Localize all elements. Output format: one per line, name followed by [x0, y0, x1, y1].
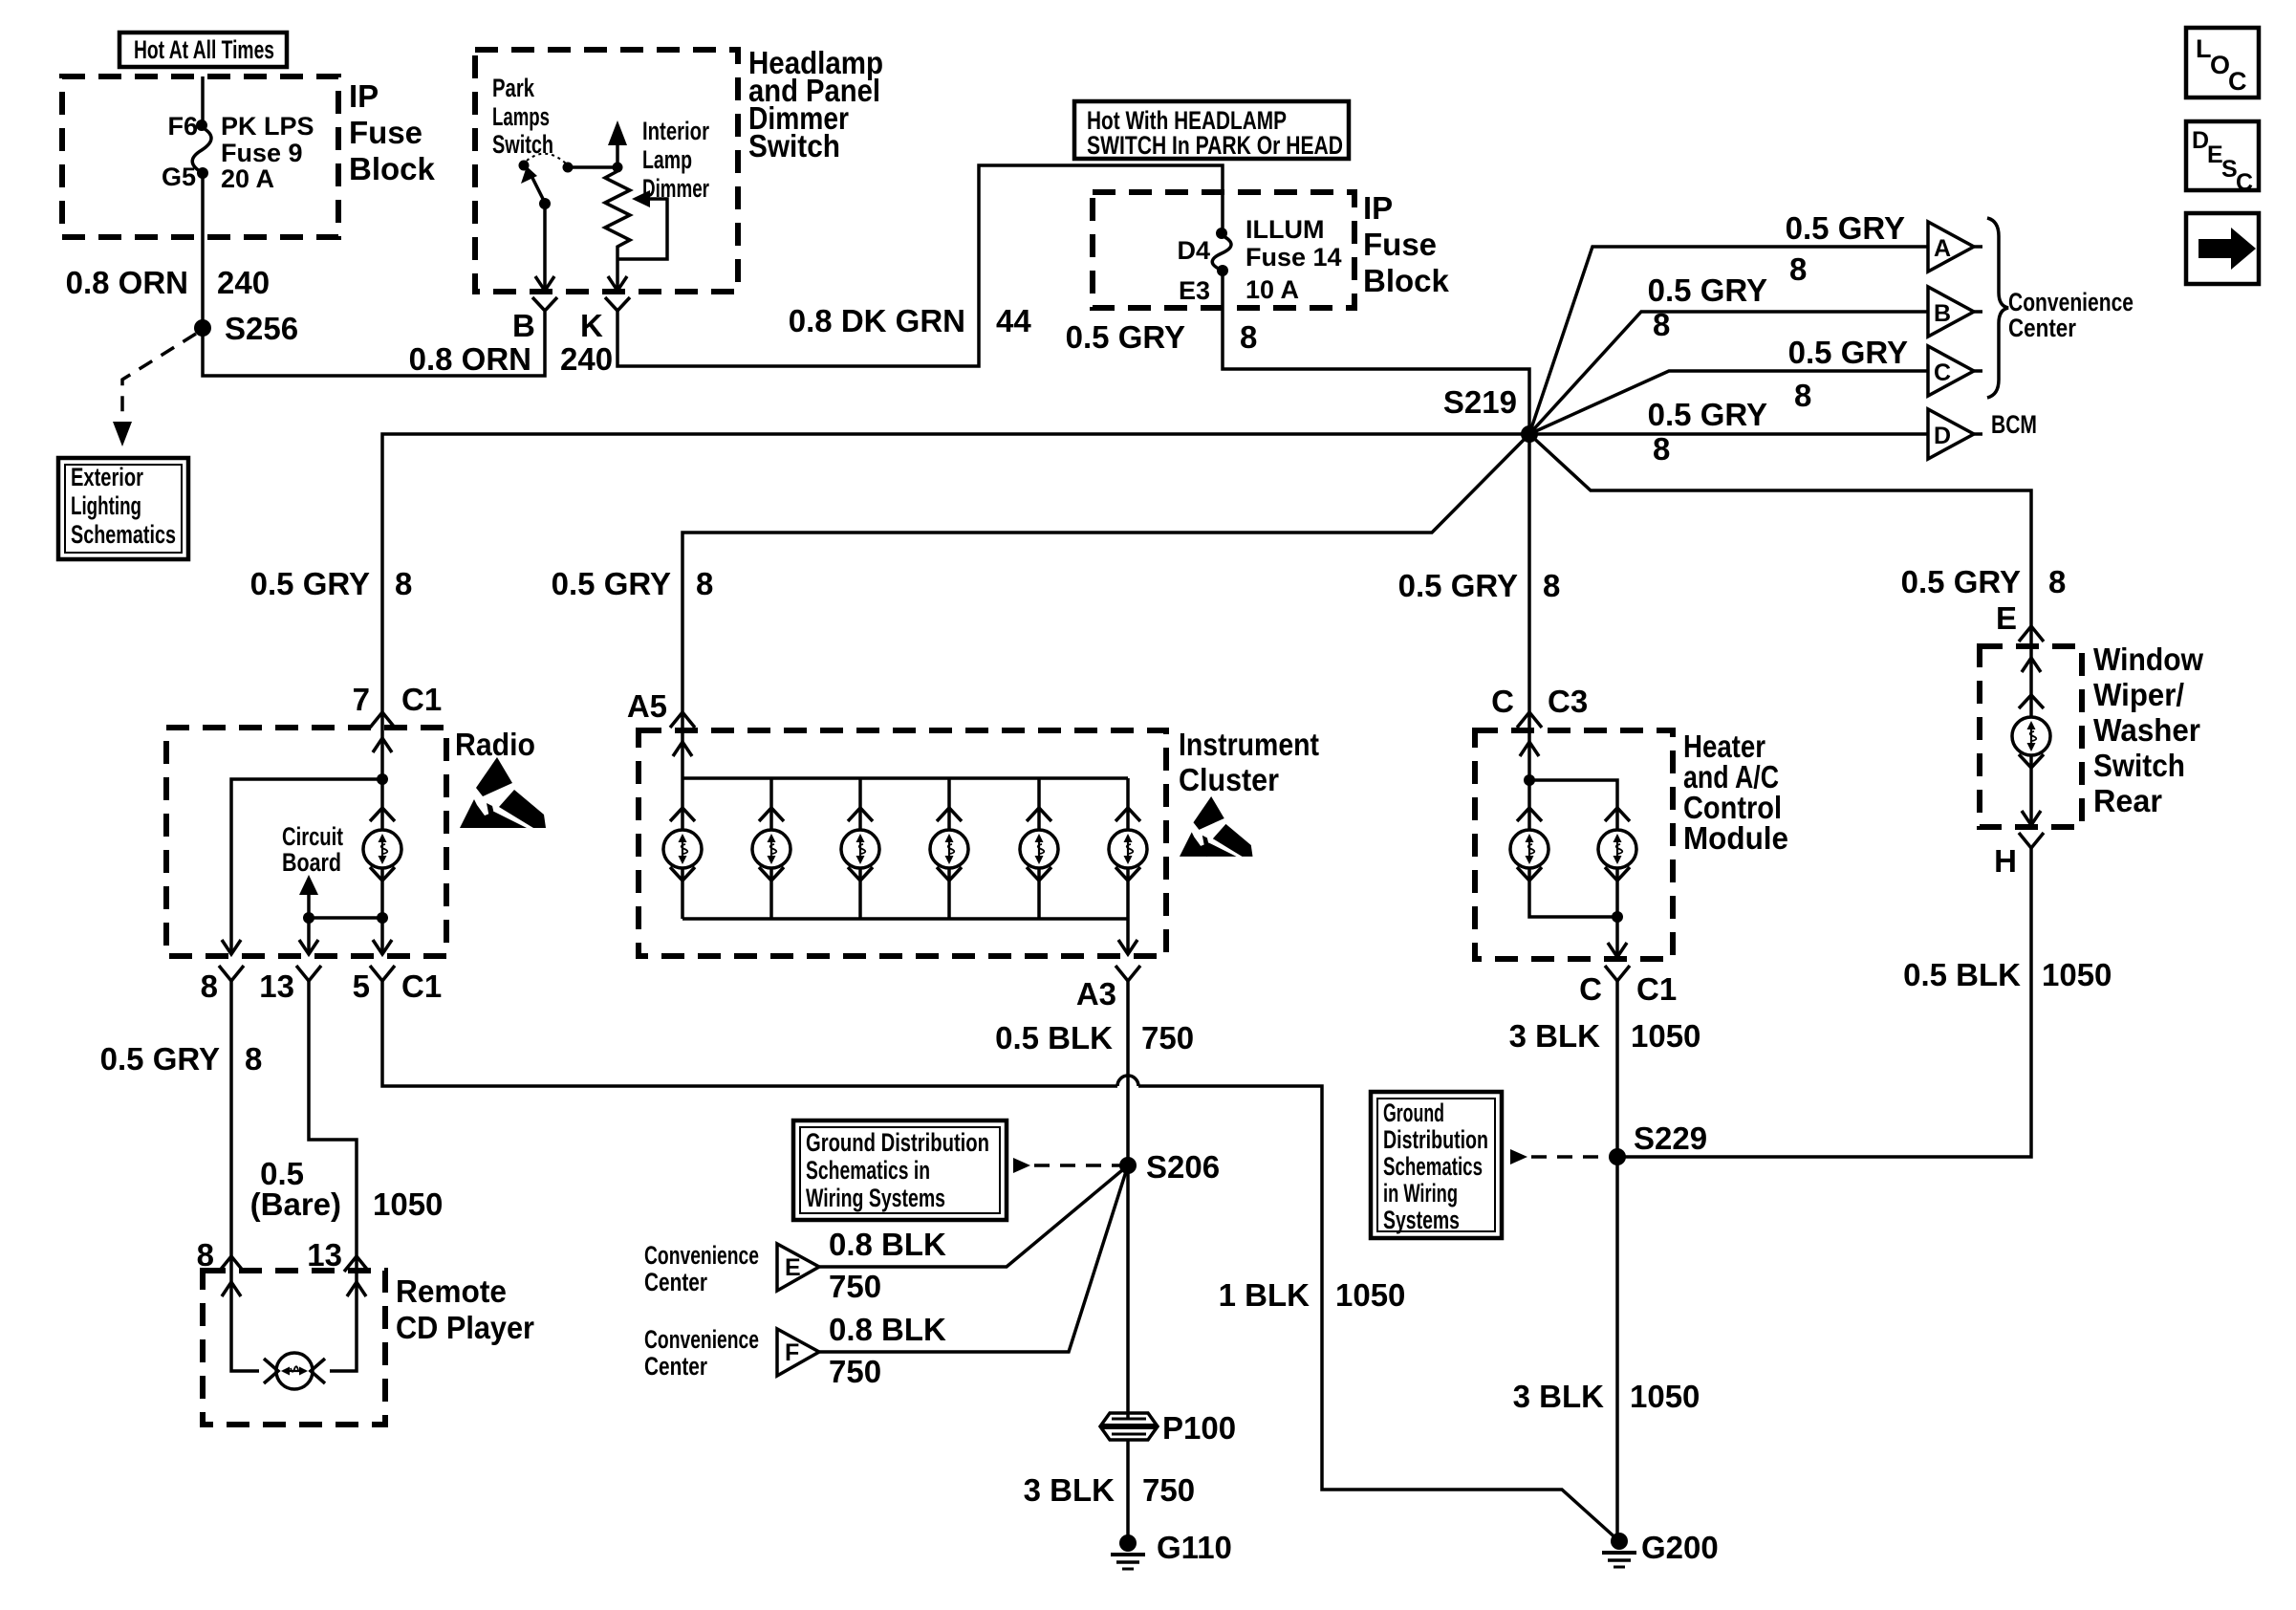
svg-text:5: 5 — [353, 968, 370, 1004]
connector H — [2019, 833, 2044, 848]
svg-text:D4: D4 — [1177, 236, 1210, 265]
svg-text:S206: S206 — [1146, 1149, 1220, 1185]
svg-text:240: 240 — [560, 341, 613, 377]
svg-text:Block: Block — [349, 151, 436, 186]
svg-text:Switch: Switch — [492, 130, 553, 159]
svg-text:0.5 GRY: 0.5 GRY — [1648, 397, 1767, 432]
circuit board ground arrow — [299, 875, 382, 954]
svg-text:240: 240 — [217, 265, 270, 300]
svg-text:Fuse: Fuse — [1363, 227, 1437, 262]
callout box: Hot At All Times — [119, 33, 287, 67]
svg-text:0.5 GRY: 0.5 GRY — [1066, 319, 1185, 355]
callout box: Ground Distribution Schematics in Wiring Systems (right) — [1371, 1092, 1502, 1238]
wiper lamp — [2029, 626, 2033, 695]
wire: E to S206 — [819, 1165, 1128, 1267]
svg-text:Window: Window — [2093, 642, 2203, 677]
connector triangle D — [1928, 409, 1982, 459]
cluster lamp 2 — [769, 778, 773, 808]
svg-text:SWITCH In PARK Or HEAD: SWITCH In PARK Or HEAD — [1087, 131, 1343, 160]
svg-text:C: C — [2228, 67, 2247, 96]
svg-text:Cluster: Cluster — [1179, 762, 1279, 797]
splice S219 — [1521, 425, 1538, 443]
svg-text:Fuse 9: Fuse 9 — [221, 139, 303, 167]
svg-text:(Bare): (Bare) — [250, 1186, 341, 1222]
svg-text:750: 750 — [1142, 1472, 1195, 1508]
svg-text:0.5 GRY: 0.5 GRY — [250, 566, 370, 601]
cluster lamp 5 — [1037, 778, 1041, 808]
connector A5 — [670, 712, 695, 728]
Heater and A/C Control Module dashed box — [1475, 730, 1673, 959]
svg-text:Switch: Switch — [748, 128, 840, 163]
svg-text:S256: S256 — [225, 311, 298, 346]
svg-text:Convenience: Convenience — [2008, 288, 2134, 316]
svg-text:ILLUM: ILLUM — [1245, 215, 1324, 244]
connector K — [605, 297, 630, 311]
svg-text:Block: Block — [1363, 263, 1450, 298]
IP Fuse Block (left) dashed box — [62, 76, 338, 237]
fuse PK LPS Fuse 9 — [162, 112, 314, 193]
svg-text:20 A: 20 A — [221, 164, 274, 193]
connector triangle C — [1928, 346, 1982, 396]
wire: heater drop from S219 — [1527, 434, 1531, 712]
svg-text:Washer: Washer — [2093, 712, 2200, 748]
splice S229 — [1609, 1148, 1626, 1165]
svg-text:Wiper/: Wiper/ — [2093, 677, 2184, 712]
wire: S219 to C (convenience center) — [1529, 371, 1928, 434]
svg-text:C3: C3 — [1548, 684, 1588, 719]
svg-text:C: C — [1934, 359, 1951, 386]
wire: feed into fuse F6 — [201, 76, 205, 121]
svg-text:Exterior: Exterior — [71, 463, 143, 491]
svg-text:E: E — [1996, 600, 2017, 636]
splice S206 — [1119, 1157, 1137, 1174]
svg-text:H: H — [1994, 843, 2017, 879]
svg-text:Switch: Switch — [2093, 748, 2185, 783]
svg-text:CD Player: CD Player — [396, 1310, 534, 1345]
connector triangle F (convenience center) — [777, 1329, 819, 1376]
wire: S219 to wiper switch drop — [1529, 434, 2031, 626]
svg-text:P100: P100 — [1162, 1410, 1236, 1446]
svg-text:Convenience: Convenience — [644, 1241, 759, 1270]
IP Fuse Block (right) dashed box — [1093, 192, 1354, 308]
wire: S256 down and right to headlamp switch B — [203, 312, 545, 376]
svg-text:0.8 ORN: 0.8 ORN — [66, 265, 188, 300]
wire: S219 to instrument cluster A5 — [682, 434, 1529, 712]
svg-text:8: 8 — [245, 1041, 262, 1077]
wire: S219 to B (convenience center) — [1529, 312, 1928, 434]
svg-text:Dimmer: Dimmer — [642, 174, 709, 203]
wire: radio 5/C1 ground run with hop over S206 wire — [382, 981, 1117, 1086]
svg-text:K: K — [580, 308, 603, 343]
svg-text:IP: IP — [1363, 190, 1393, 226]
svg-text:0.5 GRY: 0.5 GRY — [552, 566, 671, 601]
connector triangle A — [1928, 222, 1982, 272]
connector triangle B — [1928, 287, 1982, 337]
svg-text:Ground: Ground — [1383, 1099, 1444, 1127]
svg-text:8: 8 — [395, 566, 412, 601]
svg-text:0.5 GRY: 0.5 GRY — [100, 1041, 220, 1077]
connector B — [532, 297, 557, 311]
svg-text:Hot At All Times: Hot At All Times — [134, 35, 274, 64]
svg-text:0.8 BLK: 0.8 BLK — [829, 1227, 946, 1262]
svg-text:PK LPS: PK LPS — [221, 112, 314, 141]
svg-text:44: 44 — [996, 303, 1031, 338]
svg-text:C: C — [1491, 684, 1514, 719]
svg-text:Lamp: Lamp — [642, 145, 692, 174]
heater lamp 2 — [1598, 808, 1636, 881]
svg-text:B: B — [512, 308, 535, 343]
wire: S219 to D (BCM), shared horizontal — [1529, 432, 1928, 436]
svg-text:E: E — [785, 1254, 801, 1281]
LOC box — [2186, 28, 2259, 98]
svg-text:in Wiring: in Wiring — [1383, 1179, 1458, 1207]
svg-text:B: B — [1934, 300, 1951, 327]
wire: S219 left to radio drop — [382, 434, 1529, 712]
Window Wiper/Washer Switch Rear dashed box — [1980, 646, 2082, 827]
svg-text:C1: C1 — [401, 682, 442, 717]
svg-text:8: 8 — [201, 968, 218, 1004]
svg-text:D: D — [1934, 423, 1951, 449]
radio illumination lamp — [363, 808, 401, 881]
wire: fuse output to S219 — [1223, 271, 1529, 434]
callout box: Hot With HEADLAMP SWITCH In PARK Or HEAD — [1074, 101, 1349, 160]
cluster lamp 6 — [1126, 778, 1130, 808]
callout box: Exterior Lighting Schematics — [58, 458, 188, 559]
svg-text:Center: Center — [644, 1352, 707, 1381]
svg-text:8: 8 — [1240, 319, 1257, 355]
wire: F to S206 — [819, 1165, 1128, 1352]
wire: P100 to G110 — [1126, 1440, 1130, 1543]
connector E — [2019, 626, 2044, 642]
svg-text:7: 7 — [353, 682, 370, 717]
dashed reference arrow to S229 — [1510, 1149, 1527, 1164]
ESD symbol (cluster) — [1180, 796, 1253, 857]
svg-text:O: O — [2210, 51, 2230, 79]
svg-text:0.5 GRY: 0.5 GRY — [1901, 564, 2021, 599]
svg-text:1050: 1050 — [373, 1186, 443, 1222]
svg-text:Distribution: Distribution — [1383, 1125, 1488, 1154]
svg-text:8: 8 — [1653, 307, 1670, 342]
ground G110 — [1119, 1534, 1137, 1552]
connector 7 C1 (radio) — [370, 712, 395, 728]
svg-text:G200: G200 — [1641, 1530, 1719, 1565]
wire: heater to S229 — [1615, 981, 1619, 1541]
svg-text:0.8 BLK: 0.8 BLK — [829, 1312, 946, 1347]
svg-text:Wiring Systems: Wiring Systems — [806, 1184, 945, 1212]
wire: A3 down to S206 — [1126, 981, 1130, 1418]
cluster lamp 4 — [947, 778, 951, 808]
svg-text:3 BLK: 3 BLK — [1024, 1472, 1116, 1508]
svg-text:BCM: BCM — [1991, 410, 2037, 439]
svg-text:0.5 GRY: 0.5 GRY — [1398, 568, 1518, 603]
svg-text:8: 8 — [1653, 431, 1670, 467]
svg-text:S229: S229 — [1634, 1120, 1707, 1156]
svg-text:8: 8 — [1789, 251, 1807, 287]
svg-text:Module: Module — [1683, 820, 1788, 856]
cluster lamp 3 — [858, 778, 862, 808]
svg-text:13: 13 — [259, 968, 294, 1004]
svg-text:A5: A5 — [627, 688, 667, 724]
svg-text:F: F — [785, 1339, 799, 1366]
svg-text:Park: Park — [492, 74, 535, 102]
cluster ground out A3 — [1126, 919, 1130, 954]
radio internal wiring — [222, 712, 392, 954]
svg-text:10 A: 10 A — [1245, 275, 1299, 304]
ground G200 — [1611, 1533, 1628, 1550]
svg-text:750: 750 — [829, 1269, 881, 1304]
svg-text:Radio: Radio — [455, 727, 535, 762]
svg-text:Center: Center — [644, 1268, 707, 1296]
svg-text:Ground Distribution: Ground Distribution — [806, 1128, 989, 1157]
svg-text:1050: 1050 — [1631, 1018, 1700, 1054]
wire: wiper down to S229 — [1617, 848, 2031, 1157]
Remote CD Player dashed box — [203, 1271, 385, 1425]
Instrument Cluster dashed box — [639, 730, 1166, 956]
svg-text:8: 8 — [197, 1237, 214, 1273]
cluster bus bars — [681, 712, 684, 808]
svg-text:3 BLK: 3 BLK — [1509, 1018, 1601, 1054]
wire: G5 down to S256 — [201, 173, 205, 328]
svg-text:1 BLK: 1 BLK — [1219, 1277, 1310, 1313]
label: Convenience Center — [2008, 288, 2134, 342]
svg-text:Schematics in: Schematics in — [806, 1156, 930, 1185]
brace — [1987, 218, 2008, 398]
svg-text:Schematics: Schematics — [1383, 1152, 1483, 1181]
dashed reference arrow to S206 — [1013, 1158, 1030, 1173]
svg-text:Remote: Remote — [396, 1273, 507, 1309]
svg-text:F6: F6 — [167, 112, 198, 141]
dashed reference arrow to Exterior Lighting — [122, 334, 196, 426]
svg-text:C1: C1 — [1636, 971, 1677, 1007]
svg-text:Interior: Interior — [642, 117, 709, 145]
svg-text:A3: A3 — [1076, 976, 1116, 1012]
heater lamp 1 — [1510, 808, 1549, 881]
svg-text:E3: E3 — [1179, 276, 1210, 305]
ESD symbol (radio) — [460, 757, 546, 828]
svg-text:G5: G5 — [162, 163, 196, 191]
grommet P100 — [1100, 1410, 1236, 1446]
heater internal wiring — [1527, 712, 1531, 808]
svg-text:13: 13 — [307, 1237, 342, 1273]
svg-text:G110: G110 — [1157, 1530, 1232, 1565]
svg-text:Fuse: Fuse — [349, 115, 422, 150]
svg-text:Board: Board — [282, 848, 341, 877]
splice S256 — [194, 319, 211, 337]
svg-text:0.5 GRY: 0.5 GRY — [1788, 335, 1908, 370]
svg-text:Rear: Rear — [2093, 783, 2162, 818]
interior lamp dimmer (rheostat) — [605, 120, 667, 291]
park lamps switch — [519, 154, 623, 291]
svg-text:C: C — [1579, 971, 1602, 1007]
svg-text:750: 750 — [1141, 1020, 1194, 1055]
DESC box — [2186, 121, 2259, 196]
svg-text:0.5 BLK: 0.5 BLK — [1903, 957, 2021, 992]
label: IP Fuse Block — [349, 78, 436, 186]
connector C C1 — [1605, 966, 1630, 981]
svg-text:C1: C1 — [401, 968, 442, 1004]
connector C C3 — [1517, 712, 1542, 728]
label: Park Lamps Switch — [492, 74, 553, 159]
svg-text:A: A — [1934, 235, 1951, 262]
svg-text:1050: 1050 — [1630, 1379, 1700, 1414]
svg-text:Fuse 14: Fuse 14 — [1245, 243, 1342, 272]
label: Circuit Board — [282, 822, 343, 877]
svg-text:8: 8 — [1794, 378, 1811, 413]
svg-text:Circuit: Circuit — [282, 822, 343, 851]
svg-text:0.8 ORN: 0.8 ORN — [409, 341, 531, 377]
Headlamp and Panel Dimmer Switch dashed box — [475, 50, 738, 292]
svg-text:Center: Center — [2008, 314, 2076, 342]
svg-text:0.5 GRY: 0.5 GRY — [1786, 210, 1905, 246]
svg-text:Instrument: Instrument — [1179, 727, 1319, 762]
svg-text:Lighting: Lighting — [71, 491, 141, 520]
svg-text:750: 750 — [829, 1354, 881, 1389]
connectors into CD player — [219, 1256, 244, 1272]
wire: S219 to A (convenience center) — [1529, 247, 1928, 434]
label 0.8 ORN 240 — [66, 265, 270, 300]
svg-text:8: 8 — [2048, 564, 2066, 599]
svg-text:8: 8 — [1543, 568, 1560, 603]
svg-text:1050: 1050 — [2042, 957, 2112, 992]
label 0.8 ORN 240 (below B) — [409, 341, 613, 377]
wire: radio 13 to CD player (bare) — [309, 981, 357, 1256]
cluster lamp 1 — [663, 808, 702, 881]
wire: K to ILLUM fuse, 0.8 DK GRN 44 — [617, 165, 1223, 366]
svg-text:8: 8 — [696, 566, 713, 601]
svg-text:S219: S219 — [1443, 384, 1517, 420]
svg-text:Lamps: Lamps — [492, 102, 550, 131]
svg-text:Systems: Systems — [1383, 1206, 1460, 1234]
forward arrow box — [2186, 213, 2259, 284]
svg-text:Convenience: Convenience — [644, 1325, 759, 1354]
wire: radio 8 to CD player — [229, 981, 233, 1256]
svg-text:3 BLK: 3 BLK — [1513, 1379, 1605, 1414]
svg-text:0.8 DK GRN: 0.8 DK GRN — [789, 303, 965, 338]
svg-text:0.5 BLK: 0.5 BLK — [995, 1020, 1113, 1055]
CD player internal lamp — [222, 1256, 366, 1389]
svg-text:C: C — [2236, 169, 2253, 196]
svg-text:Schematics: Schematics — [71, 520, 176, 549]
svg-text:1050: 1050 — [1335, 1277, 1405, 1313]
Radio dashed box — [166, 728, 446, 956]
svg-text:0.5 GRY: 0.5 GRY — [1648, 272, 1767, 308]
fuse ILLUM Fuse 14 — [1177, 215, 1341, 305]
connector triangle E (convenience center) — [777, 1244, 819, 1291]
label: Interior Lamp Dimmer — [642, 117, 709, 203]
svg-text:IP: IP — [349, 78, 379, 114]
radio bottom connectors 8 13 5 C1 — [219, 966, 244, 981]
callout box: Ground Distribution Schematics in Wiring Systems (left) — [793, 1120, 1007, 1220]
